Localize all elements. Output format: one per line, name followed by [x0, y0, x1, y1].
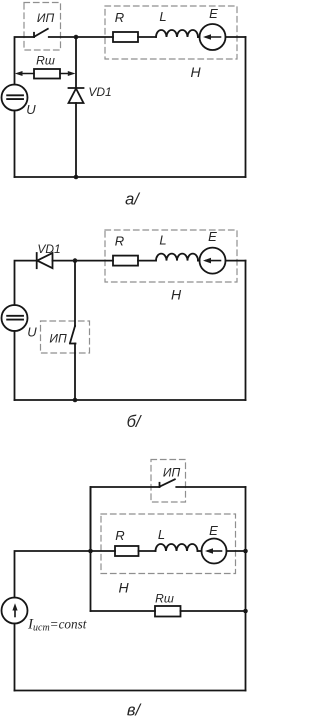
wire L to E source (circuit a) — [198, 36, 200, 38]
wire source U to bottom rail (circuit b) — [14, 331, 16, 400]
wire current source to middle branch (circuit v) — [15, 551, 91, 598]
dashed box around switch IP (circuit a) — [24, 3, 61, 51]
svg-text:U: U — [26, 102, 36, 117]
svg-text:VD1: VD1 — [88, 85, 111, 99]
node junction bottom of switch branch (circuit b) — [73, 398, 78, 403]
svg-text:б/: б/ — [127, 413, 142, 431]
node junction top of switch branch (circuit b) — [73, 258, 78, 263]
switch IP (circuit b) — [70, 326, 76, 344]
svg-text:а/: а/ — [125, 191, 140, 209]
svg-text:R: R — [115, 234, 124, 249]
svg-text:Н: Н — [171, 287, 182, 303]
dashed box around switch IP (circuit b) — [41, 321, 90, 353]
wire top-left from source to diode (circuit b) — [15, 261, 37, 305]
wire switch branch lower (circuit b) — [74, 344, 76, 401]
inductor L (circuit a) — [156, 30, 198, 37]
resistor R (circuit b) — [113, 256, 138, 266]
wire E to right vertical (circuit v) — [227, 550, 246, 552]
wire top branch right (circuit v) — [176, 486, 245, 488]
svg-text:Rш: Rш — [155, 592, 174, 606]
diode VD1 (circuit b) — [37, 253, 53, 268]
svg-text:L: L — [159, 233, 166, 248]
inductor L (circuit v) — [156, 544, 198, 551]
node junction left of middle branch (circuit v) — [88, 549, 93, 554]
switch IP (circuit a) — [34, 29, 48, 37]
wire R to L (circuit v) — [139, 550, 156, 552]
wire top-left from source to switch (circuit a) — [15, 37, 35, 85]
svg-text:R: R — [115, 10, 124, 25]
svg-text:ИП: ИП — [163, 466, 181, 480]
arrow right of shunt Rsh (circuit a) — [60, 71, 76, 76]
wire source U to bottom rail (circuit a) — [14, 111, 16, 178]
wire right vertical (circuit b) — [245, 261, 247, 400]
wire E to right side (circuit a) — [226, 36, 246, 38]
dashed box around switch IP (circuit v) — [151, 460, 186, 503]
wire E to right side (circuit b) — [226, 260, 246, 262]
wire switch branch upper (circuit b) — [74, 261, 76, 326]
svg-text:E: E — [208, 229, 217, 244]
svg-text:Iист=const: Iист=const — [27, 617, 87, 634]
svg-text:в/: в/ — [127, 702, 142, 720]
wire middle branch to R (circuit v) — [91, 550, 116, 552]
wire bottom rail (circuit a) — [15, 176, 246, 178]
inductor L (circuit b) — [156, 254, 198, 261]
wire L to E source (circuit b) — [198, 260, 200, 262]
svg-text:L: L — [158, 527, 165, 542]
svg-text:U: U — [27, 325, 37, 340]
node junction right of middle branch (circuit v) — [243, 549, 248, 554]
svg-text:L: L — [159, 9, 166, 24]
resistor R (circuit v) — [115, 546, 139, 556]
EMF source E (circuit v) — [202, 539, 227, 564]
wire left vertical of loop (circuit v) — [90, 487, 92, 611]
EMF source E (circuit b) — [200, 248, 226, 274]
wire R to L (circuit a) — [138, 36, 156, 38]
node junction bottom of diode branch (circuit a) — [74, 175, 79, 180]
wire R to L (circuit b) — [138, 260, 156, 262]
node junction right of shunt branch (circuit v) — [243, 609, 248, 614]
switch IP (circuit v) — [160, 479, 175, 487]
svg-text:ИП: ИП — [49, 332, 67, 346]
dashed box H load (circuit a) — [105, 6, 237, 59]
wire top branch left (circuit v) — [91, 487, 160, 551]
dashed box H load (circuit v) — [101, 514, 236, 574]
svg-text:VD1: VD1 — [37, 242, 60, 256]
wire bottom branch right (circuit v) — [181, 610, 246, 612]
diode VD1 (circuit a) — [69, 88, 84, 103]
dashed box H load (circuit b) — [105, 230, 237, 282]
current source I (circuit v) — [2, 598, 28, 624]
node junction top of diode branch (circuit a) — [74, 35, 79, 40]
wire right vertical (circuit a) — [245, 37, 247, 177]
wire L to E source (circuit v) — [198, 550, 202, 552]
voltage source U (circuit b) — [2, 305, 28, 331]
resistor R (circuit a) — [113, 32, 138, 42]
svg-text:ИП: ИП — [37, 11, 55, 25]
wire bottom rail (circuit v) — [15, 690, 246, 692]
wire bottom rail (circuit b) — [15, 399, 246, 401]
arrow left of shunt Rsh (circuit a) — [15, 71, 34, 76]
svg-text:R: R — [115, 528, 124, 543]
wire current source to bottom rail (circuit v) — [14, 624, 16, 691]
svg-text:E: E — [209, 6, 218, 21]
wire bottom branch left (circuit v) — [91, 610, 156, 612]
voltage source U (circuit a) — [2, 85, 28, 111]
wire right vertical (circuit v) — [245, 487, 247, 691]
shunt resistor Rsh (circuit a) — [34, 69, 60, 79]
svg-text:E: E — [209, 523, 218, 538]
svg-text:Н: Н — [190, 64, 201, 80]
EMF source E (circuit a) — [200, 24, 226, 50]
wire diode branch upper (circuit a) — [75, 37, 77, 88]
svg-text:Н: Н — [118, 580, 129, 596]
wire switch to resistor R (circuit a) — [49, 36, 113, 38]
svg-text:Rш: Rш — [36, 54, 55, 68]
wire diode branch lower (circuit a) — [75, 103, 77, 177]
wire diode to resistor R (circuit b) — [53, 260, 114, 262]
shunt resistor Rsh (circuit v) — [155, 606, 181, 617]
